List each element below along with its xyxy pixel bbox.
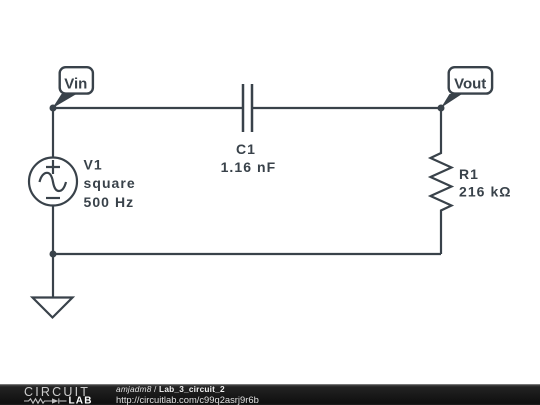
svg-text:Vout: Vout xyxy=(454,76,486,93)
svg-text:1.16 nF: 1.16 nF xyxy=(221,159,277,175)
svg-text:216 kΩ: 216 kΩ xyxy=(459,183,512,199)
svg-text:square: square xyxy=(84,175,136,191)
svg-text:V1: V1 xyxy=(84,157,103,173)
svg-text:LAB: LAB xyxy=(69,396,93,405)
svg-text:500 Hz: 500 Hz xyxy=(84,194,135,210)
svg-text:Vin: Vin xyxy=(64,76,87,93)
svg-text:C1: C1 xyxy=(236,141,256,157)
svg-text:R1: R1 xyxy=(459,166,479,182)
